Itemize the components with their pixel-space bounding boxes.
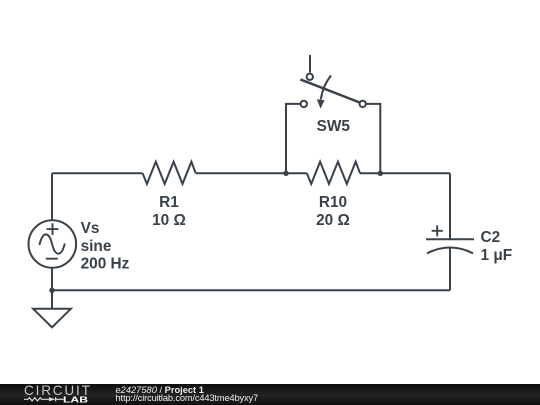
svg-text:sine: sine: [81, 238, 112, 255]
svg-text:LAB: LAB: [63, 395, 88, 404]
svg-text:1 μF: 1 μF: [481, 247, 513, 264]
svg-text:R10: R10: [319, 194, 347, 211]
svg-text:200 Hz: 200 Hz: [81, 255, 130, 272]
svg-text:Vs: Vs: [81, 220, 100, 237]
svg-text:R1: R1: [159, 194, 179, 211]
svg-text:C2: C2: [481, 229, 501, 246]
svg-text:20 Ω: 20 Ω: [316, 212, 350, 229]
svg-text:10 Ω: 10 Ω: [152, 212, 186, 229]
svg-text:SW5: SW5: [317, 118, 351, 135]
